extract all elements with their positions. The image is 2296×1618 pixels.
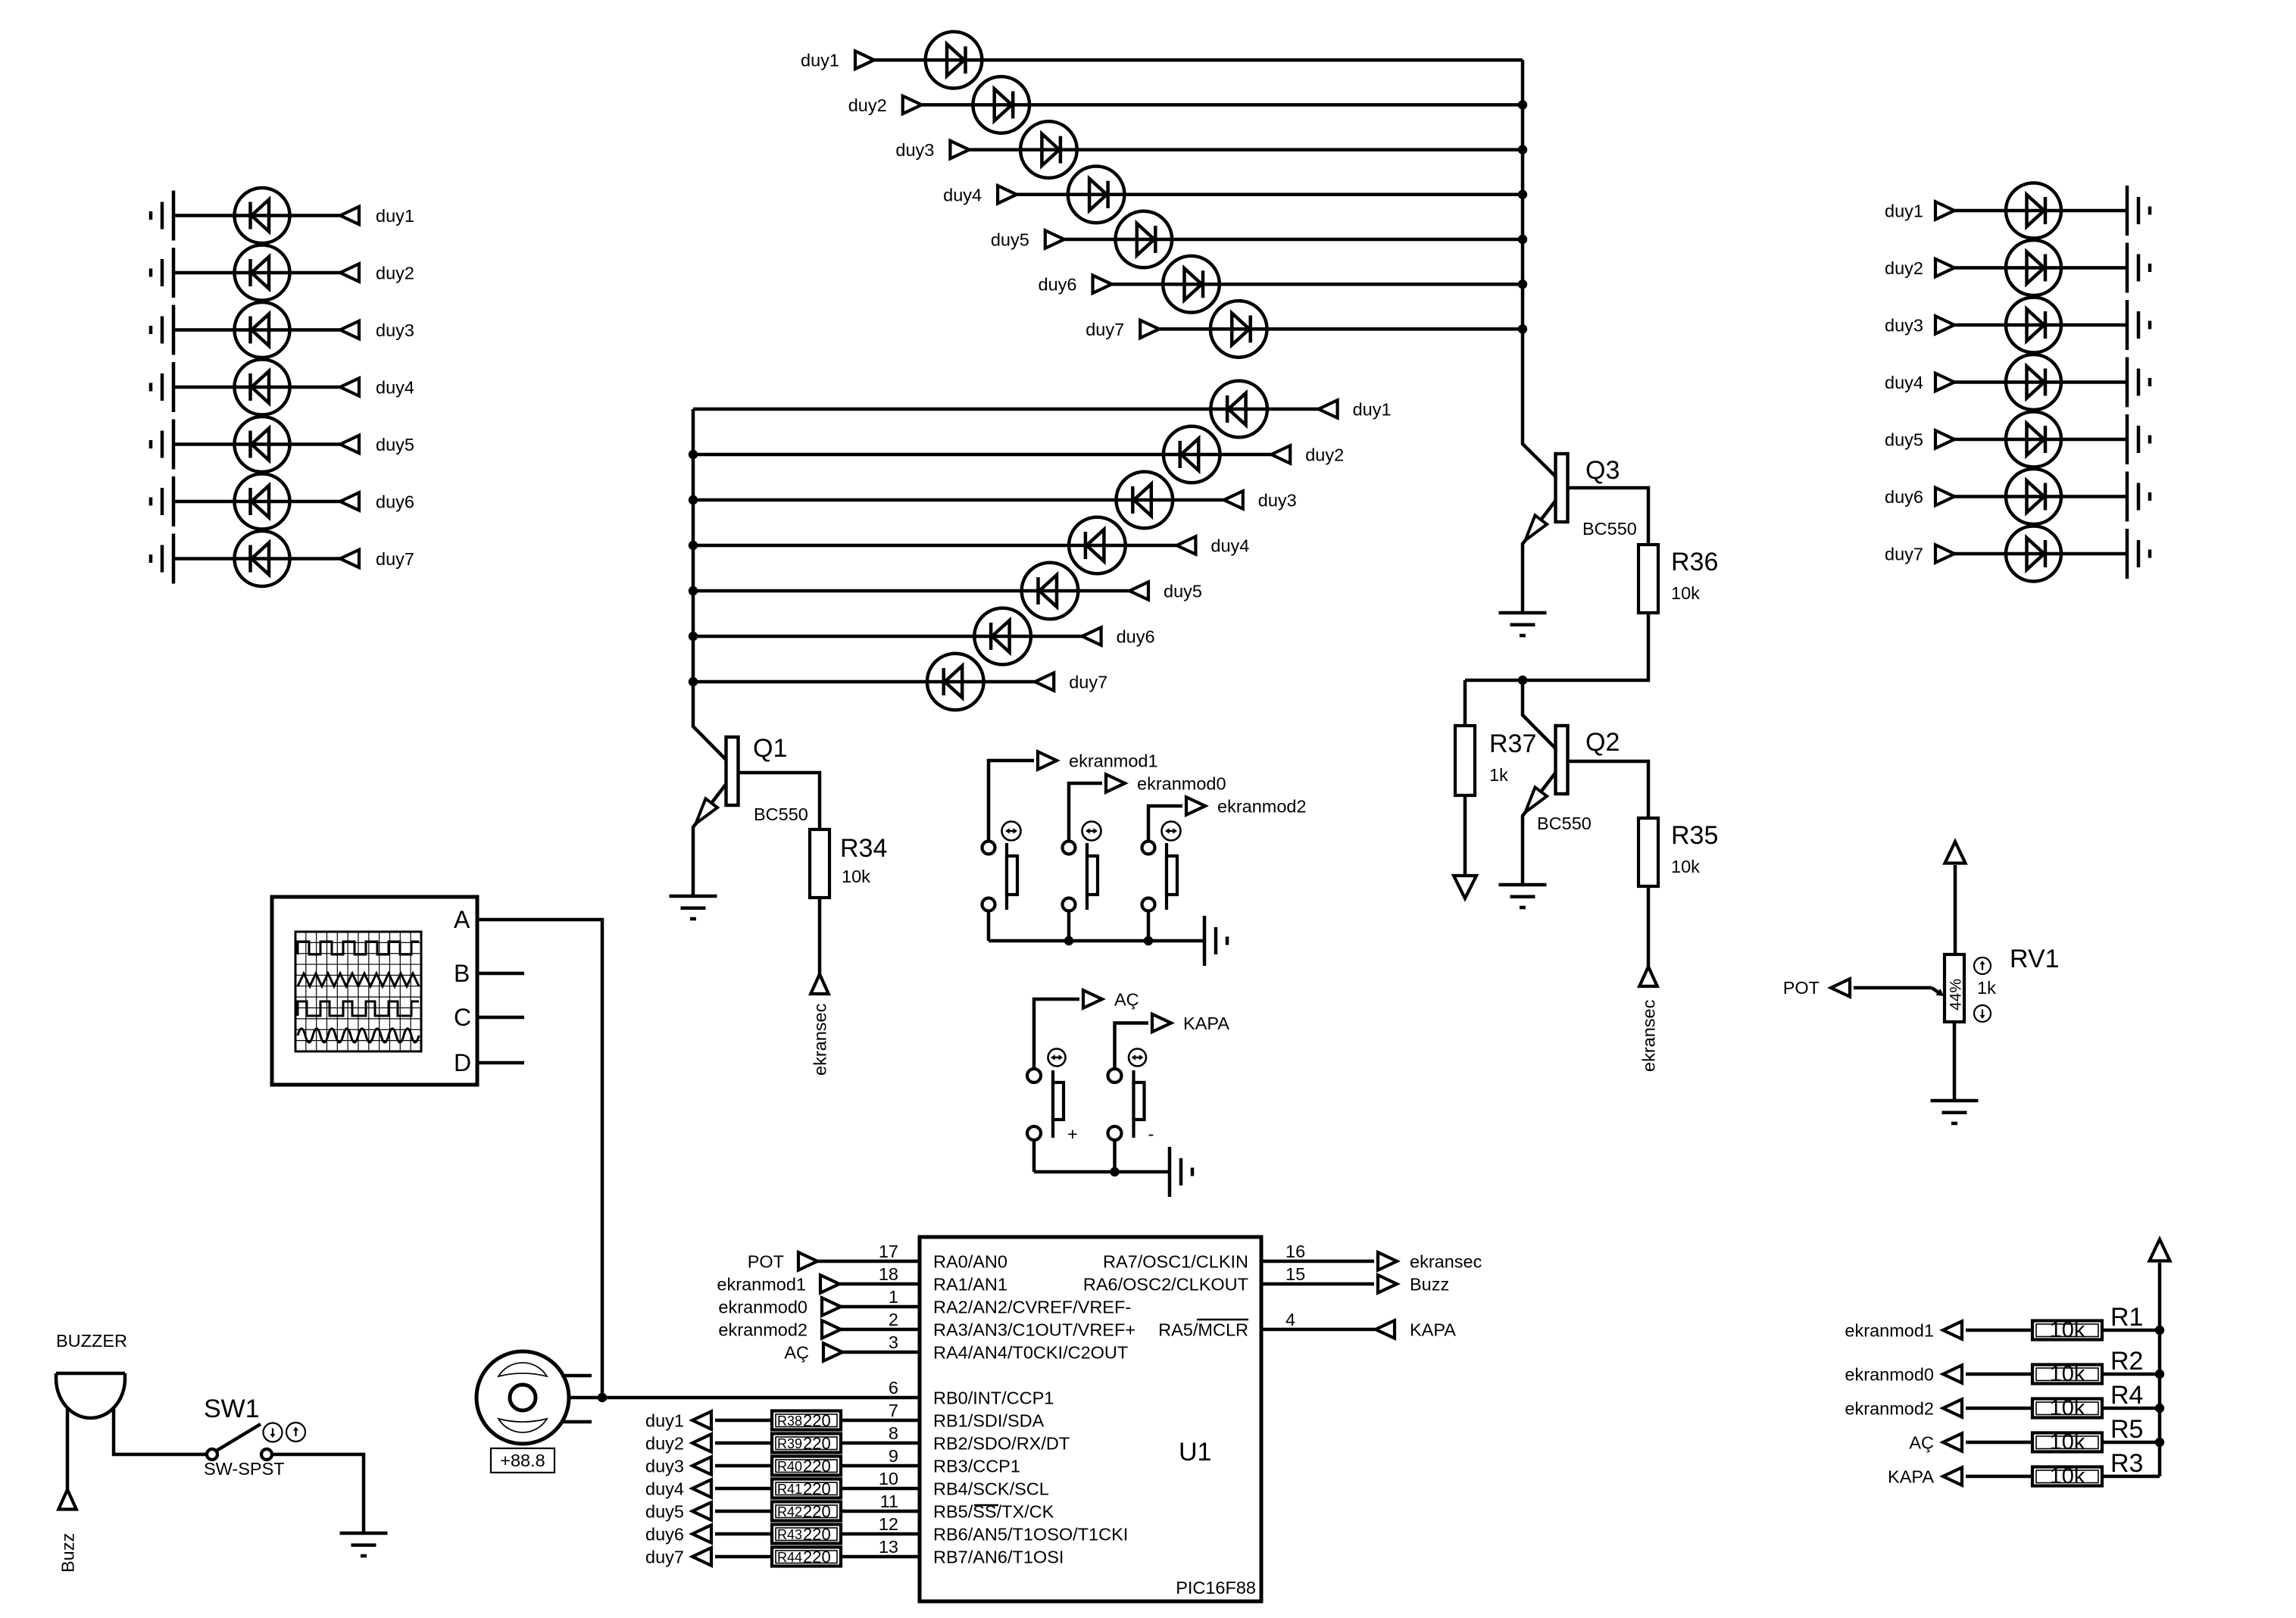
wire (R44 to U1 pin 13): [841, 1555, 920, 1559]
svg-text:RB0/INT/CCP1: RB0/INT/CCP1: [933, 1388, 1054, 1408]
wire (voltmeter to node): [569, 1396, 602, 1400]
label duy7 (right column): [1885, 545, 1923, 564]
terminal arrow duy4 (mid group): [1176, 536, 1195, 554]
wire (Q2 base to R35): [1570, 761, 1649, 818]
svg-text:BC550: BC550: [1537, 814, 1592, 833]
svg-text:duy6: duy6: [1117, 627, 1155, 647]
ground (right LED column row duy3): [2127, 300, 2150, 350]
LED duy1 (top group): [926, 32, 982, 89]
svg-text:10k: 10k: [2050, 1318, 2085, 1342]
svg-text:R39: R39: [777, 1436, 802, 1451]
LED duy4 (right column): [2006, 355, 2061, 410]
svg-text:ekranmod2: ekranmod2: [1217, 797, 1307, 817]
pin number 3 (U1): [889, 1332, 898, 1352]
pin name RA4/AN4/T0CKI/C2OUT (U1): [933, 1343, 1128, 1363]
wire (button KAPA to ground bus): [1113, 1140, 1117, 1172]
junction (ground bus / KAPA button): [1110, 1167, 1119, 1176]
pin name RB2/SDO/RX/DT (U1): [933, 1434, 1070, 1454]
LED duy5 (left column): [235, 417, 290, 472]
label duy7 (left column): [376, 549, 414, 569]
label R5: [2110, 1415, 2143, 1444]
LED duy3 (mid group): [1117, 472, 1173, 529]
push button AÇ actuator: [1053, 1070, 1064, 1138]
wire (KAPA arrow to R3): [1966, 1475, 2032, 1479]
label duy5 (right column): [1885, 430, 1923, 450]
LED duy3 (right column): [2006, 298, 2061, 353]
ground (left LED column row duy7): [151, 534, 173, 584]
label AÇ (R5): [1909, 1433, 1934, 1453]
LED duy4 (top group): [1068, 166, 1125, 223]
svg-text:220: 220: [803, 1479, 831, 1498]
terminal arrow duy6 (top group): [1093, 275, 1112, 293]
svg-text:10k: 10k: [2050, 1430, 2085, 1454]
svg-text:duy4: duy4: [1885, 373, 1923, 392]
wire (top group duy2 row): [922, 103, 1523, 107]
svg-text:R37: R37: [1489, 729, 1536, 758]
IC U1 body: [920, 1237, 1261, 1601]
pin name RA6/OSC2/CLKOUT (U1): [1083, 1275, 1248, 1295]
resistor R37: [1455, 726, 1475, 795]
label duy3 (mid group): [1258, 491, 1297, 511]
emitter arrow (Q2): [1526, 787, 1548, 812]
label ekransec (R34): [811, 1003, 830, 1076]
label KAPA (R3): [1888, 1467, 1934, 1487]
label 44% (RV1): [1948, 979, 1965, 1010]
label SW1: [204, 1395, 260, 1423]
terminal arrow duy3 (right column): [1935, 316, 1954, 334]
wire (left column duy5 row): [173, 442, 340, 446]
terminal arrow ekranmod1: [1038, 751, 1057, 770]
pin name RB4/SCK/SCL (U1): [933, 1479, 1049, 1499]
resistor R35: [1638, 818, 1658, 886]
svg-text:R41: R41: [777, 1482, 802, 1497]
svg-text:BC550: BC550: [1582, 519, 1637, 539]
resistor R41 220: [772, 1479, 841, 1499]
terminal arrow ekranmod1 (R1): [1943, 1321, 1962, 1339]
wire (right column duy5 row): [1954, 438, 2127, 442]
svg-text:duy1: duy1: [1353, 400, 1392, 420]
terminal arrow duy2 (top group): [903, 96, 922, 114]
label duy2 (left column): [376, 264, 414, 283]
svg-text:duy3: duy3: [376, 320, 414, 340]
pin name RA0/AN0 (U1): [933, 1252, 1007, 1272]
ground (Q2 emitter): [1499, 885, 1547, 907]
wire (R42 to U1 pin 11): [841, 1510, 920, 1513]
svg-text:U1: U1: [1179, 1438, 1211, 1467]
svg-text:duy5: duy5: [376, 435, 414, 454]
svg-text:duy6: duy6: [376, 492, 414, 512]
power terminal (pull-up network): [2150, 1239, 2170, 1476]
svg-text:10: 10: [879, 1469, 898, 1488]
label duy2 (top group): [848, 95, 887, 115]
output arrow Buzz (pin 15): [1378, 1275, 1397, 1293]
svg-text:R43: R43: [777, 1527, 802, 1542]
svg-text:Buzz: Buzz: [58, 1533, 78, 1573]
wire (left column duy7 row): [173, 557, 340, 561]
terminal arrow duy1 (top group): [855, 51, 874, 69]
ground (right LED column row duy6): [2127, 472, 2150, 522]
label duy3 (left column): [376, 320, 414, 340]
ground (left LED column row duy1): [151, 191, 173, 241]
svg-text:KAPA: KAPA: [1183, 1014, 1229, 1033]
wire (duy1 arrow to R38): [715, 1419, 772, 1423]
svg-text:RB7/AN6/T1OSI: RB7/AN6/T1OSI: [933, 1548, 1064, 1567]
LED duy6 (mid group): [974, 608, 1031, 665]
wire (U1 pin 3): [842, 1351, 920, 1354]
svg-text:duy5: duy5: [991, 230, 1029, 250]
LED duy2 (right column): [2006, 240, 2061, 295]
wire (scope C stub): [477, 1016, 524, 1020]
pin number 4 (U1): [1285, 1310, 1295, 1329]
wire (left column duy3 row): [173, 328, 340, 332]
oscilloscope screen: [295, 932, 421, 1051]
terminal arrow POT (RV1): [1831, 979, 1850, 997]
LED duy1 (left column): [235, 188, 290, 243]
ground (left LED column row duy3): [151, 305, 173, 355]
wire (top group duy5 row): [1064, 238, 1523, 242]
label KAPA: [1183, 1014, 1229, 1033]
svg-text:ekransec: ekransec: [1410, 1252, 1482, 1272]
label duy4 (U1 side): [645, 1479, 684, 1499]
wire (button ekranmod2 to arrow): [1148, 806, 1182, 842]
input arrow ekranmod0 (U1 pin 1): [822, 1298, 841, 1316]
label KAPA (pin 4): [1410, 1320, 1456, 1340]
wire (node to R37): [1464, 680, 1467, 726]
svg-text:13: 13: [879, 1537, 898, 1557]
pin name RB5/SS/TX/CK (U1): [933, 1502, 1054, 1522]
wire (R37 to arrow): [1464, 795, 1467, 894]
wire (U1 pin 1): [841, 1305, 920, 1309]
wire (button ekranmod0 to arrow): [1069, 783, 1102, 842]
voltmeter display +88.8: [491, 1448, 554, 1473]
LED duy4 (left column): [235, 360, 290, 415]
svg-text:Q2: Q2: [1585, 728, 1620, 757]
svg-text:RA3/AN3/C1OUT/VREF+: RA3/AN3/C1OUT/VREF+: [933, 1320, 1136, 1340]
label ekranmod1 (R1): [1845, 1321, 1934, 1341]
power terminal (RV1): [1945, 842, 1966, 954]
voltmeter pin stub bottom: [561, 1420, 592, 1424]
voltmeter body: [476, 1351, 569, 1444]
svg-text:44%: 44%: [1948, 979, 1965, 1010]
label POT (RV1): [1783, 978, 1820, 998]
svg-text:duy1: duy1: [645, 1411, 684, 1431]
label 10k (R35): [1671, 857, 1700, 876]
pin name RA5/MCLR (U1): [1158, 1320, 1248, 1340]
wire (POT to RV1 wiper): [1854, 988, 1941, 994]
icon down (RV1): [1974, 1005, 1991, 1022]
svg-text:2: 2: [889, 1310, 898, 1329]
output arrow duy2 (U1 side): [692, 1434, 711, 1452]
svg-text:1k: 1k: [1977, 978, 1996, 998]
resistor R4 10k: [2032, 1396, 2102, 1420]
label duy5 (U1 side): [645, 1502, 684, 1522]
wire (top group duy6 row): [1112, 283, 1523, 286]
ground (left LED column row duy6): [151, 476, 173, 526]
wire (button KAPA to arrow): [1115, 1023, 1149, 1070]
svg-text:1k: 1k: [1489, 765, 1508, 785]
wire (right column duy7 row): [1954, 552, 2127, 556]
terminal arrow duy1 (left column): [340, 207, 359, 225]
wire (top group duy4 row): [1017, 193, 1523, 197]
label 1k (R37): [1489, 765, 1508, 785]
svg-text:RA2/AN2/CVREF/VREF-: RA2/AN2/CVREF/VREF-: [933, 1298, 1131, 1317]
ground (right LED column row duy1): [2127, 186, 2150, 236]
push button ekranmod0 actuator: [1087, 843, 1098, 910]
LED duy7 (mid group): [927, 654, 984, 711]
svg-text:Buzz: Buzz: [1410, 1275, 1449, 1295]
svg-text:duy2: duy2: [848, 95, 887, 115]
resistor R42 220: [772, 1502, 841, 1522]
pin number 6 (U1): [889, 1378, 898, 1398]
LED duy5 (right column): [2006, 412, 2061, 467]
push button ekranmod0 contact top: [1063, 842, 1076, 854]
LED duy5 (top group): [1116, 211, 1173, 268]
label duy5 (top group): [991, 230, 1029, 250]
label R37: [1489, 729, 1536, 758]
label R4: [2110, 1381, 2143, 1410]
terminal arrow (R37 down): [1454, 876, 1476, 898]
label BC550 (Q1): [754, 804, 808, 824]
potentiometer RV1 body: [1945, 954, 1964, 1022]
ground (AC/KAPA buttons): [1170, 1147, 1192, 1197]
pin number 1 (U1): [889, 1287, 898, 1307]
svg-text:duy7: duy7: [376, 549, 414, 569]
svg-text:R36: R36: [1671, 548, 1718, 576]
svg-text:duy5: duy5: [1164, 582, 1202, 601]
push button KAPA contact bottom: [1108, 1126, 1122, 1140]
wire (ekranmod buttons ground bus): [989, 939, 1204, 943]
ground (left LED column row duy2): [151, 248, 173, 298]
push button AÇ contact bottom: [1027, 1126, 1041, 1140]
pin number 16 (U1): [1285, 1242, 1305, 1261]
push button KAPA icon: [1129, 1049, 1146, 1067]
junction (ground bus / ekranmod0): [1064, 936, 1073, 945]
push button KAPA actuator: [1134, 1070, 1145, 1138]
LED duy5 (mid group): [1022, 563, 1079, 620]
svg-text:R34: R34: [840, 834, 887, 863]
label AÇ (U1 left): [784, 1343, 809, 1363]
label R1: [2110, 1303, 2143, 1332]
LED duy7 (right column): [2006, 526, 2061, 582]
LED duy7 (top group): [1210, 301, 1267, 358]
svg-text:8: 8: [889, 1423, 898, 1443]
label duy3 (top group): [895, 140, 934, 160]
wire (Q2 emitter): [1523, 773, 1556, 885]
label duy1 (top group): [801, 51, 839, 70]
wire (R1 to power bus): [2102, 1329, 2160, 1332]
svg-text:6: 6: [889, 1378, 898, 1398]
svg-text:R2: R2: [2110, 1347, 2143, 1376]
LED duy6 (top group): [1163, 256, 1220, 313]
push button ekranmod0 icon: [1082, 822, 1101, 841]
svg-text:D: D: [454, 1049, 471, 1076]
svg-text:duy7: duy7: [645, 1548, 684, 1567]
svg-text:R5: R5: [2110, 1415, 2143, 1444]
label duy6 (left column): [376, 492, 414, 512]
label duy3 (U1 side): [645, 1457, 684, 1476]
terminal arrow AÇ (R5): [1943, 1433, 1962, 1451]
input arrow AÇ (U1 pin 3): [823, 1343, 842, 1361]
wire (mid group duy7 row): [693, 680, 1035, 684]
label R3: [2110, 1449, 2143, 1478]
label Q1: [753, 734, 787, 763]
wire (R34 to ekransec): [818, 898, 822, 974]
svg-text:duy5: duy5: [645, 1502, 684, 1522]
svg-text:R35: R35: [1671, 821, 1718, 850]
junction (mid bus / duy2): [689, 450, 698, 459]
label Q3: [1585, 456, 1620, 485]
label R34: [840, 834, 887, 863]
pin name RB1/SDI/SDA (U1): [933, 1411, 1045, 1431]
waveform channel A: [298, 942, 419, 954]
pin name RA3/AN3/C1OUT/VREF+ (U1): [933, 1320, 1136, 1340]
wire (R43 to U1 pin 12): [841, 1532, 920, 1536]
wire (right column duy2 row): [1954, 266, 2127, 270]
wire (mid group duy3 row): [693, 498, 1224, 502]
svg-text:R3: R3: [2110, 1449, 2143, 1478]
wire (Q1 base to R34): [740, 773, 820, 829]
voltmeter arc bottom: [498, 1419, 547, 1432]
junction (top bus / duy2): [1518, 100, 1527, 109]
label 10k (R36): [1671, 583, 1700, 603]
output arrow duy3 (U1 side): [692, 1457, 711, 1475]
label duy6 (right column): [1885, 487, 1923, 507]
label ekranmod1 (U1 left): [717, 1275, 806, 1295]
svg-text:duy4: duy4: [645, 1479, 684, 1499]
LED duy2 (left column): [235, 245, 290, 301]
svg-text:duy7: duy7: [1069, 673, 1107, 692]
label 10k (R34): [842, 867, 870, 886]
emitter arrow (Q3): [1526, 515, 1548, 540]
junction (top bus / duy5): [1518, 235, 1527, 244]
svg-text:220: 220: [803, 1525, 831, 1544]
ground (right LED column row duy2): [2127, 243, 2150, 293]
terminal arrow duy3 (mid group): [1224, 491, 1243, 509]
label duy2 (U1 side): [645, 1434, 684, 1454]
wire (scope D stub): [477, 1061, 524, 1065]
wire (right column duy4 row): [1954, 380, 2127, 384]
input arrow ekranmod1 (U1 pin 18): [820, 1275, 839, 1293]
svg-text:R44: R44: [777, 1550, 802, 1565]
resistor R3 10k: [2032, 1464, 2102, 1488]
push button ekranmod2 icon: [1162, 822, 1181, 841]
terminal arrow duy3 (top group): [950, 141, 969, 159]
svg-text:duy4: duy4: [943, 185, 982, 205]
label duy3 (right column): [1885, 316, 1923, 336]
terminal arrow KAPA (R3): [1943, 1467, 1962, 1485]
terminal arrow duy7 (mid group): [1035, 673, 1054, 691]
svg-text:10k: 10k: [2050, 1396, 2085, 1420]
label POT (U1 left): [748, 1252, 784, 1272]
push button ekranmod1 actuator: [1007, 843, 1017, 910]
push button ekranmod2 contact bottom: [1142, 898, 1155, 911]
svg-text:ekranmod1: ekranmod1: [1069, 751, 1158, 771]
wire (top group duy1 row): [874, 58, 1523, 62]
svg-text:duy6: duy6: [645, 1525, 684, 1545]
label duy1 (left column): [376, 206, 414, 226]
wire (top bus vertical to Q3 collector): [1523, 60, 1556, 476]
wire (left column duy2 row): [173, 271, 340, 275]
waveform channel B: [298, 973, 419, 986]
label RV1: [2010, 945, 2060, 973]
ground (SW1): [340, 1533, 388, 1556]
pin number 13 (U1): [879, 1537, 898, 1557]
svg-text:10k: 10k: [1671, 583, 1700, 603]
svg-text:RB6/AN5/T1OSO/T1CKI: RB6/AN5/T1OSO/T1CKI: [933, 1525, 1128, 1545]
oscilloscope body: [272, 897, 477, 1085]
wire (right column duy1 row): [1954, 209, 2127, 213]
svg-text:18: 18: [879, 1264, 898, 1284]
svg-text:RB1/SDI/SDA: RB1/SDI/SDA: [933, 1411, 1045, 1431]
push button ekranmod2 contact top: [1142, 842, 1155, 854]
transistor Q1 bar: [726, 737, 739, 805]
pin number 15 (U1): [1285, 1264, 1305, 1284]
svg-text:ekranmod2: ekranmod2: [718, 1320, 808, 1340]
label R36: [1671, 548, 1718, 576]
junction (mid bus / duy7): [689, 677, 698, 686]
wire (mid group duy6 row): [693, 635, 1082, 639]
wire (R4 to power bus): [2102, 1407, 2160, 1410]
wire (scope A to RB0 node): [477, 920, 602, 1398]
pin number 17 (U1): [879, 1242, 898, 1261]
label duy5 (mid group): [1164, 582, 1202, 601]
svg-text:duy2: duy2: [1885, 258, 1923, 278]
ground (right LED column row duy4): [2127, 358, 2150, 408]
terminal arrow ekranmod0 (R2): [1943, 1365, 1962, 1383]
svg-text:A: A: [454, 906, 470, 933]
wire (button ekranmod0 to ground bus): [1067, 911, 1071, 942]
LED duy6 (left column): [235, 474, 290, 529]
label duy1 (mid group): [1353, 400, 1392, 420]
wire (Q1 emitter): [693, 784, 726, 896]
svg-text:10k: 10k: [2050, 1464, 2085, 1488]
ground (left LED column row duy4): [151, 362, 173, 412]
svg-text:SW-SPST: SW-SPST: [204, 1459, 285, 1479]
wire (mid group duy2 row): [693, 453, 1271, 457]
junction (power bus / R2): [2155, 1370, 2164, 1379]
label duy7 (U1 side): [645, 1548, 684, 1567]
terminal arrow duy7 (right column): [1935, 545, 1954, 563]
svg-text:220: 220: [803, 1457, 831, 1476]
junction (top bus / duy6): [1518, 280, 1527, 289]
terminal arrow duy5 (mid group): [1129, 582, 1148, 600]
pin number 9 (U1): [889, 1446, 898, 1466]
svg-text:POT: POT: [1783, 978, 1820, 998]
terminal arrow duy7 (top group): [1140, 320, 1159, 339]
svg-text:KAPA: KAPA: [1410, 1320, 1456, 1340]
wire (right column duy6 row): [1954, 495, 2127, 498]
wire (R35 to ekransec): [1647, 886, 1651, 967]
label duy2 (right column): [1885, 258, 1923, 278]
junction (power bus / R1): [2155, 1326, 2164, 1335]
svg-text:C: C: [454, 1004, 471, 1031]
pin name RA2/AN2/CVREF/VREF- (U1): [933, 1298, 1131, 1317]
svg-text:+: +: [1067, 1124, 1078, 1144]
terminal arrow ekranmod0: [1106, 774, 1125, 792]
svg-text:11: 11: [880, 1491, 898, 1511]
wire (mid group duy1 row): [693, 408, 1319, 411]
label ekranmod1: [1069, 751, 1158, 771]
wire (mid bus vertical to Q1 collector): [693, 409, 726, 760]
label D (scope): [454, 1049, 471, 1076]
resistor R39 220: [772, 1434, 841, 1454]
input arrow KAPA (pin 4): [1376, 1320, 1395, 1338]
svg-text:duy4: duy4: [1210, 536, 1249, 556]
label ekranmod2: [1217, 797, 1307, 817]
svg-text:AÇ: AÇ: [784, 1343, 809, 1363]
label duy6 (top group): [1039, 275, 1077, 295]
svg-text:RV1: RV1: [2010, 945, 2060, 973]
